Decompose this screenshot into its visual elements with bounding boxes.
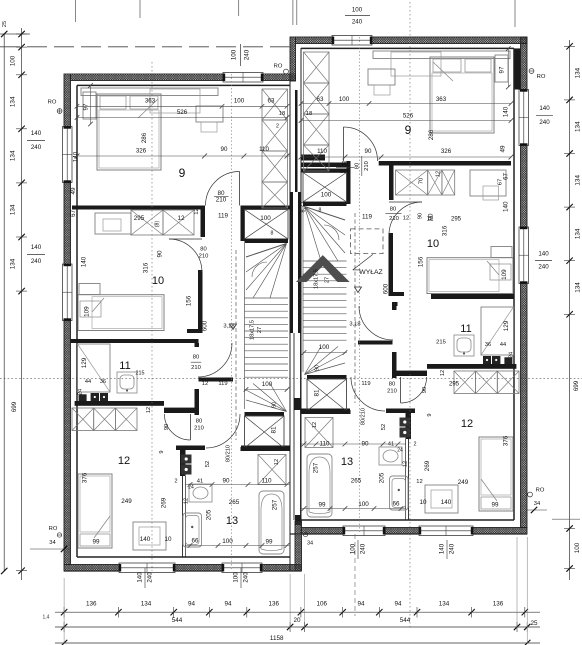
svg-text:94: 94	[188, 601, 196, 608]
tick bottom1 x=64.1	[61, 609, 67, 615]
roof-access chevron arrow	[296, 255, 350, 282]
sink room11 right unit	[454, 335, 474, 356]
bath west wall left unit	[180, 446, 186, 476]
wall above lower landing left unit	[245, 412, 285, 416]
exterior wall: left unit west wall (hatched)	[64, 74, 71, 127]
svg-text:RO: RO	[48, 100, 57, 106]
top margin party wall extension	[292, 0, 294, 25]
bath bottom dim line right	[301, 508, 406, 510]
svg-text:134: 134	[10, 150, 17, 161]
svg-text:140: 140	[503, 201, 510, 212]
stair dim 100 line right unit	[303, 352, 347, 354]
washer stack bath right unit	[400, 418, 411, 427]
svg-text:2: 2	[276, 123, 279, 129]
vertical dim 97 left	[90, 86, 92, 125]
svg-text:27: 27	[324, 277, 330, 283]
svg-text:257: 257	[313, 462, 320, 473]
svg-text:100: 100	[260, 215, 271, 222]
bed fold room12 left unit	[94, 516, 110, 538]
svg-text:134: 134	[575, 228, 582, 239]
door arc bath right unit	[351, 377, 385, 411]
svg-text:110: 110	[259, 146, 269, 153]
left dimension line L1	[21, 28, 23, 580]
wall below staircase left unit	[241, 447, 291, 451]
svg-text:210: 210	[194, 426, 204, 432]
wylaz dashed hatch rectangle	[351, 229, 384, 254]
hob burners room11 left unit	[91, 393, 99, 401]
svg-text:100: 100	[234, 98, 245, 105]
svg-text:210: 210	[199, 253, 209, 259]
svg-text:100: 100	[231, 49, 238, 60]
wardrobe column room9 right unit	[304, 52, 330, 83]
tick bottom1 x=173.7	[171, 609, 177, 615]
tick bottom2 x=517	[514, 624, 520, 630]
door arc room10 right unit	[389, 202, 422, 235]
svg-text:41: 41	[197, 479, 203, 485]
svg-text:265: 265	[351, 478, 362, 485]
svg-text:80: 80	[193, 355, 199, 361]
large bathtub bath left unit	[259, 491, 284, 554]
window 140/240 right wall upper	[519, 90, 529, 146]
desk room9 left unit	[196, 106, 223, 122]
bottom dimension line 1	[55, 611, 540, 613]
svg-text:134: 134	[10, 258, 17, 269]
svg-text:63: 63	[268, 98, 275, 105]
svg-text:52: 52	[205, 461, 211, 467]
tick bottom1 x=524.8	[522, 609, 528, 615]
tick R1 y=153.5	[566, 150, 572, 156]
svg-text:140: 140	[439, 543, 446, 554]
svg-text:90: 90	[221, 146, 228, 153]
svg-text:240: 240	[147, 572, 154, 583]
svg-text:249: 249	[121, 498, 132, 505]
svg-text:249: 249	[458, 479, 469, 486]
staircase treads left unit	[245, 297, 289, 299]
wylaz leader line	[353, 254, 373, 270]
svg-text:136: 136	[269, 601, 280, 608]
svg-text:80: 80	[196, 419, 202, 425]
bath bottom dim line left	[185, 545, 290, 547]
svg-text:210: 210	[191, 365, 201, 371]
section axis line x=152	[151, 62, 153, 571]
svg-text:286: 286	[428, 129, 435, 140]
wall room10/room11 left unit	[71, 339, 199, 343]
svg-text:205: 205	[206, 509, 213, 520]
dim row 526 right	[301, 120, 511, 122]
RO marker bottom-center	[303, 532, 307, 536]
svg-text:526: 526	[403, 113, 414, 120]
tick L1 y=182.9	[18, 180, 24, 186]
svg-text:269: 269	[160, 497, 167, 508]
svg-text:600: 600	[383, 283, 390, 294]
svg-text:100: 100	[358, 501, 369, 508]
svg-text:12: 12	[402, 461, 408, 467]
svg-text:34: 34	[307, 540, 313, 546]
bed room12 right unit	[479, 437, 513, 511]
extension of right unit bottom edge	[552, 518, 580, 520]
svg-text:210: 210	[389, 216, 399, 222]
washer stack bath left unit	[181, 455, 192, 464]
svg-text:699: 699	[573, 380, 580, 391]
svg-text:526: 526	[177, 109, 188, 116]
dim row 63/100/363 right	[301, 103, 511, 105]
wardrobe room10 right unit	[396, 170, 428, 195]
svg-text:210: 210	[364, 161, 370, 171]
svg-text:81: 81	[271, 426, 278, 434]
vertical dim 97 right	[507, 49, 509, 88]
svg-text:25: 25	[2, 21, 8, 27]
svg-text:100: 100	[350, 543, 357, 554]
wall stub at corridor left unit	[201, 206, 206, 238]
svg-text:134: 134	[439, 601, 450, 608]
svg-text:49: 49	[500, 145, 507, 153]
staircase upper winders right unit	[305, 207, 346, 221]
svg-text:110: 110	[317, 148, 327, 155]
svg-text:119: 119	[362, 214, 373, 221]
svg-text:25: 25	[530, 620, 538, 627]
tick L1 y=291.1	[18, 288, 24, 294]
stair walk line right unit	[354, 213, 356, 403]
window 100/240 right unit south	[343, 526, 385, 536]
svg-text:269: 269	[424, 460, 431, 471]
svg-text:RO: RO	[274, 64, 283, 70]
svg-text:156: 156	[418, 256, 425, 267]
svg-text:90: 90	[157, 250, 164, 258]
hall west wall right unit	[392, 352, 397, 378]
wall below upper landing right unit	[303, 202, 347, 206]
svg-text:11: 11	[119, 360, 130, 372]
svg-text:134: 134	[10, 204, 17, 215]
svg-text:10: 10	[152, 275, 164, 287]
svg-text:67: 67	[498, 179, 504, 185]
party wall lower hatched part	[295, 521, 302, 571]
svg-text:12: 12	[202, 381, 208, 387]
wall below upper landing left unit	[245, 239, 289, 243]
svg-text:67: 67	[70, 210, 77, 218]
svg-text:363: 363	[145, 98, 156, 105]
svg-text:36: 36	[100, 379, 106, 385]
svg-text:134: 134	[141, 601, 152, 608]
bed room10 right unit	[427, 258, 513, 294]
window W 140/240 left wall lower	[63, 264, 73, 321]
staircase lower landing left unit	[245, 416, 285, 448]
svg-text:140: 140	[137, 572, 144, 583]
svg-text:210: 210	[387, 389, 397, 395]
svg-text:215: 215	[436, 340, 446, 346]
svg-text:67: 67	[503, 173, 510, 181]
nightstand room10 left unit	[79, 284, 100, 295]
svg-text:99: 99	[92, 539, 100, 546]
wall room9/room10 right unit	[379, 161, 511, 166]
svg-text:(8): (8)	[154, 221, 160, 228]
svg-text:12: 12	[435, 171, 441, 177]
svg-text:100: 100	[233, 572, 240, 583]
desk room9 right unit	[368, 69, 395, 85]
svg-text:9: 9	[427, 413, 433, 416]
stair shaft west wall right unit	[347, 161, 351, 204]
svg-text:295: 295	[451, 217, 462, 223]
svg-text:9: 9	[179, 166, 186, 180]
svg-text:80: 80	[342, 161, 348, 167]
shower bath right unit	[305, 418, 333, 448]
wall room11/room12 lower step left unit	[164, 408, 198, 413]
dim row 526 left	[77, 117, 287, 119]
party wall double lines lower	[293, 333, 295, 520]
svg-text:265: 265	[229, 499, 240, 506]
wardrobe room12 right unit	[497, 371, 519, 394]
sink room11 left unit	[117, 372, 137, 393]
svg-text:63: 63	[317, 96, 324, 103]
svg-text:100: 100	[352, 7, 363, 14]
tick bottom1 x=209.3	[206, 609, 212, 615]
svg-text:129: 129	[81, 357, 88, 368]
svg-text:100: 100	[222, 538, 233, 545]
tick bottom2 x=527.2	[524, 624, 530, 630]
tick L1 y=128.8	[18, 126, 24, 132]
svg-text:10: 10	[419, 499, 427, 506]
svg-text:90: 90	[271, 402, 277, 408]
svg-text:106: 106	[317, 601, 328, 608]
small bathtub bath right unit	[390, 476, 409, 510]
stair walk line left unit	[235, 250, 237, 440]
svg-text:376: 376	[82, 472, 89, 483]
tick R1 y=528.5	[566, 525, 572, 531]
svg-text:1158: 1158	[270, 635, 284, 642]
svg-text:34: 34	[49, 540, 56, 546]
wall room11/room12 right unit	[427, 364, 516, 369]
svg-text:140: 140	[539, 105, 550, 112]
top margin axis x=238.7	[238, 0, 240, 16]
tick bottom2 x=304.5	[301, 624, 307, 630]
section axis line x=410	[409, 2, 411, 630]
svg-text:129: 129	[503, 320, 510, 331]
svg-text:18x17,5: 18x17,5	[249, 320, 255, 340]
extension line x=517	[516, 537, 518, 629]
svg-text:2: 2	[414, 441, 417, 447]
svg-text:41: 41	[388, 442, 394, 448]
tick bottom1 x=417	[414, 609, 420, 615]
nightstand room9 right unit	[495, 55, 508, 82]
svg-text:100: 100	[339, 96, 350, 103]
top margin dash-dot line y=46.8	[0, 46, 290, 48]
svg-text:18x17,5: 18x17,5	[313, 269, 319, 289]
svg-text:90: 90	[422, 387, 428, 393]
svg-text:257: 257	[272, 499, 279, 510]
svg-text:12: 12	[416, 479, 422, 485]
svg-text:3,18: 3,18	[223, 324, 234, 330]
shower bath left unit	[258, 455, 286, 485]
svg-text:RO: RO	[536, 488, 545, 494]
svg-text:110: 110	[261, 478, 272, 485]
bed room9 left unit	[97, 94, 161, 170]
svg-text:12: 12	[461, 418, 473, 430]
tick L1 y=74.8	[18, 72, 24, 78]
svg-text:544: 544	[172, 617, 183, 624]
svg-text:12: 12	[146, 407, 152, 413]
tall cabinet room11 left unit	[78, 344, 111, 392]
top margin right inner line extension	[514, 0, 516, 27]
svg-text:140: 140	[538, 251, 549, 258]
staircase upper winders left unit	[246, 244, 287, 258]
svg-text:286: 286	[141, 132, 148, 143]
svg-text:240: 240	[31, 258, 42, 265]
svg-text:12: 12	[183, 498, 189, 504]
nightstand room10 right unit	[491, 247, 512, 258]
svg-text:18: 18	[279, 111, 285, 117]
horizontal section dotted line y=378.3	[0, 377, 582, 379]
stair shaft north wall right unit	[301, 163, 348, 168]
window 100/240 right unit north	[332, 36, 372, 46]
nightstand room12 right unit	[425, 485, 458, 513]
svg-text:240: 240	[360, 543, 367, 554]
tick bottom1 x=379.3	[376, 609, 382, 615]
svg-text:24: 24	[397, 447, 403, 453]
svg-text:9: 9	[159, 450, 165, 453]
svg-text:140: 140	[81, 256, 88, 267]
svg-text:81: 81	[314, 389, 321, 397]
svg-text:326: 326	[441, 148, 452, 155]
tick L1 y=47.1	[18, 44, 24, 50]
staircase upper landing left unit	[245, 210, 289, 239]
extension line x=64	[63, 578, 65, 644]
svg-text:12: 12	[118, 455, 130, 467]
small appliance room11 left unit	[79, 394, 87, 401]
svg-text:20: 20	[293, 617, 301, 624]
door arc corridor/hall right unit	[359, 306, 393, 340]
svg-text:363: 363	[436, 96, 447, 103]
tick R1 y=46.3	[566, 43, 572, 49]
svg-text:70: 70	[419, 178, 425, 184]
svg-text:100: 100	[319, 344, 330, 351]
svg-text:240: 240	[538, 264, 549, 271]
staircase treads right unit	[303, 260, 347, 262]
svg-text:240: 240	[352, 19, 363, 26]
svg-text:80: 80	[390, 207, 396, 213]
bed room10 left unit	[78, 295, 164, 331]
svg-text:90: 90	[365, 148, 372, 155]
hob burners room11 right unit	[492, 356, 500, 364]
svg-text:66: 66	[392, 501, 400, 508]
svg-text:136: 136	[86, 601, 97, 608]
wall below staircase right unit	[301, 410, 351, 414]
svg-text:44: 44	[85, 379, 91, 385]
svg-text:12: 12	[312, 422, 318, 428]
wall room11/room12 lower step right unit	[393, 371, 427, 376]
svg-text:240: 240	[31, 144, 42, 151]
svg-text:100: 100	[262, 381, 273, 388]
svg-text:52: 52	[381, 424, 387, 430]
svg-text:544: 544	[400, 617, 411, 624]
svg-text:140: 140	[441, 499, 452, 506]
window W 140/240 left wall upper	[63, 127, 73, 183]
wall stub at corridor right unit	[389, 161, 394, 200]
door arc bath left unit	[206, 414, 240, 448]
bed room12 left unit	[78, 474, 112, 548]
wall above lower landing right unit	[307, 375, 347, 379]
svg-text:66: 66	[191, 538, 199, 545]
svg-text:134: 134	[575, 282, 582, 293]
bath north wall east part right unit	[301, 409, 350, 414]
svg-text:240: 240	[244, 49, 251, 60]
svg-text:8,77: 8,77	[301, 201, 307, 212]
tick bottom2 x=290.1	[287, 624, 293, 630]
svg-text:80/210: 80/210	[360, 408, 366, 425]
svg-text:8: 8	[271, 230, 274, 236]
staircase upper landing right unit	[303, 173, 347, 202]
interior dim line bath left	[185, 484, 290, 486]
svg-text:90: 90	[164, 424, 170, 430]
wardrobe column bottom wall right unit	[301, 155, 325, 161]
svg-text:11: 11	[460, 323, 471, 335]
extension line x=290	[289, 574, 291, 631]
west wall inner face line	[76, 85, 78, 557]
shelf room9 left unit	[81, 88, 218, 96]
svg-text:12: 12	[194, 208, 200, 214]
svg-text:97: 97	[83, 103, 90, 110]
bath north wall west part right unit	[386, 409, 415, 414]
dim row 110/90/326 right	[301, 156, 511, 158]
door arc room9 left unit	[206, 172, 240, 206]
left outer dimension line L0	[3, 34, 5, 571]
pier above east window right unit	[514, 48, 521, 89]
bed fold line right unit	[433, 62, 453, 81]
bath north wall west part left unit	[176, 446, 205, 451]
svg-text:18: 18	[306, 111, 312, 117]
desk room10 right unit	[470, 170, 506, 196]
window 140/240 right unit south	[419, 526, 473, 536]
grid dashed x=355	[354, 534, 356, 616]
door arc room12 right unit	[401, 377, 427, 403]
tick L1 y=237	[18, 234, 24, 240]
dim row 363/100/63 left	[77, 105, 287, 107]
svg-text:90: 90	[417, 213, 423, 219]
hall west wall left unit	[195, 389, 200, 415]
svg-text:210: 210	[340, 169, 350, 175]
exterior wall: right unit east wall (hatched)	[521, 37, 528, 90]
svg-text:13: 13	[341, 456, 353, 468]
corridor west wall left unit	[198, 270, 203, 333]
exterior wall: right unit north wall	[296, 37, 333, 44]
bottom dimension line 3	[55, 642, 540, 644]
stairwell dotted axis right	[359, 37, 361, 534]
svg-text:100: 100	[10, 55, 17, 66]
corridor south wall left unit	[199, 378, 234, 382]
svg-text:44: 44	[500, 342, 506, 348]
svg-text:3,18: 3,18	[349, 322, 360, 328]
svg-text:210: 210	[216, 197, 227, 204]
tick bottom2 x=64.1	[61, 624, 67, 630]
tick R1 y=568.5	[566, 565, 572, 571]
tick L1 y=570.7	[18, 568, 24, 574]
corridor west door stub left unit	[195, 343, 200, 347]
svg-text:12: 12	[403, 216, 409, 222]
wall room9/room10 left unit	[72, 206, 201, 210]
svg-text:140: 140	[140, 536, 151, 543]
stair dim 100 line left unit	[244, 389, 288, 391]
svg-text:119: 119	[218, 381, 227, 387]
svg-text:13: 13	[226, 515, 238, 527]
svg-text:140: 140	[503, 106, 510, 117]
svg-text:80: 80	[389, 382, 395, 388]
svg-text:36: 36	[485, 342, 491, 348]
svg-text:90: 90	[222, 478, 230, 485]
party wall core upper	[295, 90, 298, 192]
bed fold line left unit	[138, 99, 158, 118]
svg-text:100: 100	[321, 192, 332, 199]
svg-text:600: 600	[202, 320, 209, 331]
top left eaves line y=34	[0, 33, 30, 35]
wardrobe room12 left unit	[72, 408, 94, 431]
